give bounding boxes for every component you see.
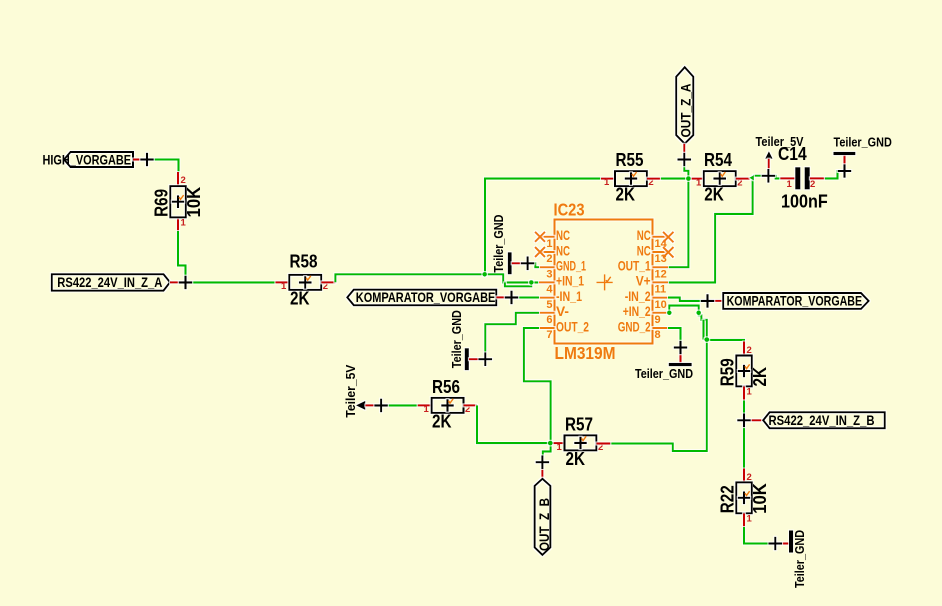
NC X pin 13: [663, 247, 674, 258]
IC23 origin cross: [597, 274, 613, 290]
svg-text:1: 1: [557, 442, 563, 453]
svg-text:RS422_24V_IN_Z_B: RS422_24V_IN_Z_B: [769, 412, 875, 428]
wire stub red OUT_Z_A: [683, 144, 685, 160]
net flag RS422_24V_IN_Z_A: [52, 274, 170, 290]
svg-text:GND_2: GND_2: [618, 319, 651, 334]
svg-text:4: 4: [546, 284, 553, 296]
svg-text:3: 3: [546, 268, 552, 280]
svg-text:RS422_24V_IN_Z_A: RS422_24V_IN_Z_A: [57, 274, 162, 290]
svg-text:Teiler_GND: Teiler_GND: [492, 215, 506, 273]
wire pin 6 V- to ground: [485, 313, 539, 353]
svg-text:2: 2: [181, 175, 186, 186]
ground Teiler_GND top right: [834, 135, 892, 164]
wire parallel segment: [702, 320, 704, 340]
svg-text:12: 12: [655, 268, 667, 280]
pin cross node B: [737, 414, 751, 428]
wire R69 to node A: [178, 231, 186, 282]
junction dot: [482, 272, 487, 277]
resistor R22: [718, 472, 770, 525]
wire pin 7 OUT_2 down: [524, 328, 551, 443]
svg-text:R69: R69: [152, 189, 172, 217]
svg-text:NC: NC: [637, 243, 651, 258]
wire junction to Teiler_5V cross: [753, 175, 768, 177]
op-amp comparator IC23 LM319M: [535, 200, 674, 363]
svg-text:2K: 2K: [432, 411, 452, 431]
svg-text:10K: 10K: [750, 483, 770, 514]
svg-text:Teiler_GND: Teiler_GND: [793, 530, 807, 588]
net flag HIGH_VORGABE: [43, 151, 134, 167]
NC X pin 14: [663, 232, 674, 243]
svg-text:1: 1: [696, 177, 702, 188]
resistor R59: [718, 345, 770, 398]
svg-text:2K: 2K: [704, 185, 724, 205]
NC X pin 2: [535, 247, 545, 257]
pin cross node A: [179, 276, 193, 290]
svg-text:R54: R54: [704, 150, 732, 170]
svg-text:8: 8: [655, 329, 661, 341]
wire R56 to R57 junction: [477, 405, 550, 443]
net flag KOMPARATOR_VORGABE left: [347, 289, 496, 305]
resistor R57: [557, 414, 604, 469]
wire stub red R54 pin1: [691, 178, 704, 180]
wire stub red RS422_B: [744, 419, 763, 421]
net flag OUT_Z_A: [676, 67, 693, 144]
svg-text:Teiler_5V: Teiler_5V: [344, 364, 358, 418]
IC23 left pin stubs: [539, 237, 555, 328]
pin cross Teiler_5V: [762, 169, 776, 183]
svg-text:NC: NC: [556, 243, 570, 258]
svg-text:Teiler_GND: Teiler_GND: [834, 135, 892, 149]
junction dot R59 top: [704, 337, 709, 342]
wire node B to R22: [743, 420, 745, 468]
net flag KOMPARATOR_VORGABE right: [723, 293, 868, 309]
wire stub red R58 pin1: [275, 281, 289, 283]
ground Teiler_GND at GND_1: [492, 215, 522, 275]
ground Teiler_GND at V-: [450, 310, 480, 370]
wire R59 to node B: [743, 400, 745, 420]
junction dot pin 9: [667, 311, 672, 316]
svg-text:6: 6: [546, 314, 552, 326]
wire GND_1 cross to pin 3: [528, 263, 539, 267]
wire stub red R22 pin2: [743, 469, 745, 483]
wire junction to IC OUT_1: [668, 179, 688, 268]
svg-text:R56: R56: [432, 377, 460, 397]
resistor R58: [281, 251, 328, 308]
svg-text:Teiler_GND: Teiler_GND: [450, 310, 464, 368]
svg-text:-IN_2: -IN_2: [625, 289, 651, 304]
svg-text:2: 2: [747, 472, 752, 483]
svg-text:V-: V-: [556, 304, 569, 319]
wire stub red KOMPARATOR left: [496, 296, 511, 298]
svg-text:1: 1: [747, 387, 753, 398]
svg-text:11: 11: [655, 284, 667, 296]
svg-text:2K: 2K: [616, 185, 636, 205]
wire stub red R56 pin2: [464, 404, 478, 406]
pin cross KOMPARATOR left: [505, 291, 519, 305]
wire stub red C14 pin1: [780, 177, 795, 179]
svg-text:C14: C14: [778, 144, 807, 164]
wire stub red R56 pin1: [418, 404, 432, 406]
svg-text:IC23: IC23: [554, 200, 585, 220]
svg-text:1: 1: [424, 404, 430, 415]
svg-text:10: 10: [655, 299, 667, 311]
capacitor C14: [778, 144, 828, 212]
svg-text:+IN_1: +IN_1: [556, 274, 584, 289]
wire cross to R56: [381, 404, 418, 406]
svg-text:Teiler_GND: Teiler_GND: [635, 367, 693, 381]
junction arrow: [749, 175, 754, 180]
svg-text:R59: R59: [718, 358, 738, 386]
wire R58 to IC +IN_1: [335, 274, 539, 282]
wire stub red KOMPARATOR right: [708, 300, 724, 302]
svg-text:OUT_Z_A: OUT_Z_A: [677, 84, 693, 138]
svg-text:100nF: 100nF: [781, 192, 828, 212]
svg-text:7: 7: [546, 329, 552, 341]
svg-text:LM319M: LM319M: [555, 343, 616, 363]
svg-text:R55: R55: [616, 150, 644, 170]
ground Teiler_GND bottom right: [775, 530, 807, 588]
pin cross HIGH_VORGABE: [140, 153, 154, 167]
svg-text:GND_1: GND_1: [556, 259, 586, 274]
pin cross R22 ground: [769, 537, 783, 551]
ground Teiler_GND at GND_2: [635, 353, 693, 381]
svg-text:KOMPARATOR_VORGABE: KOMPARATOR_VORGABE: [356, 289, 496, 305]
pin cross OUT_Z_B: [536, 455, 550, 469]
wire R55 to junction: [661, 178, 689, 180]
svg-text:HIGH_VORGABE: HIGH_VORGABE: [43, 151, 132, 167]
svg-text:OUT_1: OUT_1: [618, 259, 651, 274]
wire stub red R22 pin1: [743, 513, 745, 527]
svg-text:V+: V+: [636, 274, 651, 289]
wire pin 10 to KOMPARATOR right: [668, 298, 701, 301]
svg-text:2K: 2K: [566, 449, 586, 469]
junction dot R57: [548, 441, 553, 446]
net flag RS422_24V_IN_Z_B: [763, 412, 885, 428]
wire stub red RS422_A: [170, 281, 186, 283]
svg-text:2K: 2K: [750, 367, 770, 387]
svg-text:OUT_Z_B: OUT_Z_B: [536, 498, 552, 551]
pin cross GND_1: [521, 257, 535, 271]
resistor R54: [696, 150, 742, 205]
svg-text:1: 1: [604, 177, 610, 188]
wire OUT_Z_A to junction: [684, 160, 688, 179]
wire junction to OUT_Z_B: [543, 443, 551, 456]
wire stub red R57 pin1: [553, 442, 565, 444]
wire stub red at HIGH_VORGABE: [133, 158, 147, 160]
pin cross Teiler_GND top right: [838, 164, 852, 178]
wire stub red R55 pin1: [601, 178, 615, 180]
wire jog loop under +IN_1 net: [505, 282, 531, 286]
svg-text:+IN_2: +IN_2: [623, 304, 651, 319]
wire vertical to top row: [485, 179, 601, 275]
svg-text:2: 2: [810, 179, 815, 190]
svg-text:14: 14: [655, 238, 668, 250]
NC X pin 1: [535, 232, 545, 242]
resistor R69: [152, 172, 205, 231]
svg-text:2: 2: [546, 253, 552, 265]
net flag OUT_Z_B: [535, 479, 552, 555]
wire stub red R57 pin2: [596, 442, 610, 444]
svg-text:KOMPARATOR_VORGABE: KOMPARATOR_VORGABE: [727, 293, 863, 309]
svg-text:1: 1: [546, 238, 552, 250]
wire stub red R55 pin2: [647, 178, 661, 180]
wire cross to C14: [768, 176, 780, 179]
wire cross to pin 5: [512, 296, 540, 298]
pin cross KOMPARATOR right: [701, 294, 715, 308]
junction dot pin 9 right: [696, 311, 701, 316]
svg-text:R22: R22: [718, 485, 738, 513]
svg-text:1: 1: [747, 513, 753, 524]
wire pin 9 jog: [669, 306, 698, 313]
svg-text:1: 1: [787, 179, 793, 190]
resistor R56: [424, 377, 471, 432]
svg-text:2K: 2K: [290, 288, 310, 308]
pin cross OUT_Z_A: [678, 153, 692, 167]
wire C14 to Teiler_GND: [825, 171, 845, 178]
wire pin 8 GND_2 down: [668, 328, 681, 342]
svg-text:9: 9: [655, 314, 661, 326]
svg-text:NC: NC: [556, 228, 570, 243]
resistor R55: [604, 150, 654, 205]
svg-text:13: 13: [655, 253, 667, 265]
wire node A to R58: [186, 281, 276, 283]
junction dot: [686, 176, 691, 181]
svg-text:5: 5: [546, 299, 552, 311]
wire Teiler_5V net down to V+: [668, 178, 753, 283]
svg-text:OUT_2: OUT_2: [556, 319, 589, 334]
IC23 right pin stubs: [653, 237, 669, 328]
junction dot: [529, 280, 534, 285]
pin cross Teiler_5V left: [374, 399, 388, 413]
pin cross GND_2 ground: [674, 341, 688, 355]
supply symbol Teiler_5V top: [756, 135, 805, 170]
wire R22 to ground: [744, 527, 769, 544]
wire junction to R59: [707, 340, 744, 342]
pin cross V- ground: [479, 352, 493, 366]
svg-text:-IN_1: -IN_1: [556, 289, 582, 304]
svg-text:R58: R58: [290, 251, 318, 271]
wire pin 9 staircase down: [699, 313, 707, 340]
wire junction down to R57: [610, 340, 706, 451]
svg-text:10K: 10K: [184, 187, 204, 218]
svg-text:R57: R57: [565, 414, 593, 434]
wire stub red OUT_Z_B: [541, 462, 543, 479]
wire stub red R58 pin2: [321, 281, 335, 283]
svg-text:NC: NC: [637, 228, 651, 243]
supply symbol Teiler_5V left: [344, 364, 375, 418]
wire stub red R59 pin2: [743, 342, 745, 356]
wire stub red R54 pin2: [736, 178, 750, 180]
wire HIGH_VORGABE to R69: [147, 160, 179, 174]
wire stub red R59 pin1: [743, 386, 745, 400]
svg-text:1: 1: [181, 218, 187, 229]
wire stub red C14 pin2: [810, 177, 825, 179]
svg-text:1: 1: [281, 281, 287, 292]
svg-text:2: 2: [747, 345, 752, 356]
